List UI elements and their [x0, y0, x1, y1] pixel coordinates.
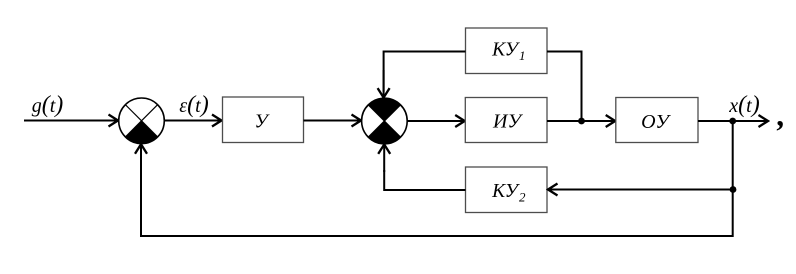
block IU (ИУ): [465, 98, 547, 143]
wire: outer feedback from B down, across bottom, up into S1: [141, 121, 733, 236]
wire: input g(t) arrow into summing junction 1: [24, 120, 118, 122]
wire: KU2 left side, left then up-arrow into S2 bottom: [384, 170, 465, 190]
svg-text:x(t): x(t): [728, 92, 759, 118]
svg-text:КУ: КУ: [491, 40, 521, 61]
summing junction S2 (top and bottom quadrants filled): [362, 98, 408, 144]
svg-text:,: ,: [777, 97, 786, 133]
node junction dot A (branch to KU1): [578, 118, 585, 125]
wire: S2 to block IU: [407, 120, 465, 122]
svg-text:2: 2: [519, 190, 526, 205]
node junction dot C: [730, 186, 737, 193]
wire: S1 to block Y with label e(t): [164, 120, 221, 122]
block OU (ОУ): [616, 98, 698, 143]
svg-text:КУ: КУ: [491, 181, 521, 202]
svg-text:g(t): g(t): [32, 92, 64, 118]
wire: branch C left into KU2 right side: [548, 189, 733, 191]
wire: OU to output x(t): [698, 120, 768, 122]
block Y (У): [223, 97, 304, 143]
node junction dot B (branch to feedback): [729, 118, 736, 125]
svg-text:ИУ: ИУ: [492, 111, 523, 133]
svg-text:ε(t): ε(t): [179, 92, 208, 118]
block KU1 (КУ1): [466, 28, 548, 74]
block KU2 (КУ2): [466, 167, 548, 213]
summing junction S1 (bottom quadrant filled): [119, 98, 165, 144]
wire: KU1 left side to down-arrow into S2 top: [384, 52, 466, 92]
wire: Y to summing junction S2: [304, 120, 362, 122]
svg-text:ОУ: ОУ: [641, 111, 671, 133]
wire: IU to OU: [547, 120, 615, 122]
svg-text:1: 1: [519, 48, 526, 63]
wire: branch A up and into KU1 right side: [547, 52, 582, 121]
